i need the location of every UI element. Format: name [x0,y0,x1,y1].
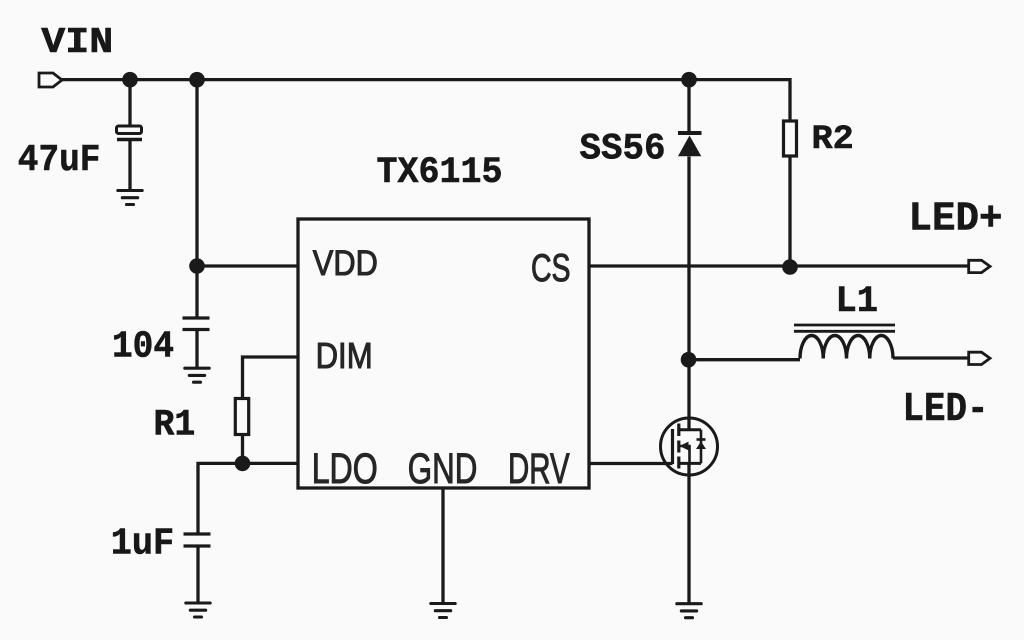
junction dot at VDD branch top [189,72,205,88]
wire DRV pin to MOSFET gate [589,462,673,465]
junction dot CS / R2 [782,259,798,275]
wire LED- inductor to terminal [893,356,969,359]
svg-text:SS56: SS56 [580,129,666,171]
svg-text:GND: GND [408,445,478,493]
wire 47uF branch [128,80,131,126]
svg-text:LDO: LDO [312,445,378,493]
ground for 1uF [186,603,210,617]
junction dot switch node [681,352,697,368]
svg-text:LED-: LED- [903,387,989,433]
wire MOSFET source to ground [687,463,690,602]
junction dot R1 / LDO [235,456,251,472]
resistor R1 [235,399,248,435]
ground for 47uF [118,191,142,205]
diode D1 SS56 cathode bar [678,131,702,135]
MOSFET Q1 channel dashes [677,424,680,469]
wire diode anode down to switch node [687,157,690,360]
wire LDO pin to 1uF [198,463,298,532]
svg-text:DIM: DIM [316,335,373,376]
wire GND pin down [441,488,444,602]
junction dot at VIN / 47uF [122,72,138,88]
IC U1 TX6115 body [298,219,589,488]
MOSFET Q1 source bar [679,462,701,465]
MOSFET Q1 body diode line [700,430,703,464]
svg-text:DRV: DRV [508,445,570,493]
wire DIM pin to R1 [243,357,299,399]
wire R1 bottom to LDO net [241,435,244,464]
MOSFET Q1 drain bar [679,428,701,431]
wire 1uF lower lead [196,548,199,603]
svg-text:R2: R2 [812,121,854,159]
capacitor C3 1uF plates [184,534,211,546]
wire VDD pin stub [197,264,298,267]
diode D1 SS56 triangle [678,136,701,157]
svg-text:CS: CS [531,247,571,290]
inductor L1 winding humps [800,335,893,358]
inductor L1 core lines [794,325,895,331]
svg-text:47uF: 47uF [18,139,101,182]
wire 47uF lower lead [128,141,131,190]
capacitor C1 47uF bottom plate [117,138,142,142]
svg-text:104: 104 [112,326,174,369]
wire top rail VIN to R2 corner [62,80,790,121]
svg-text:VDD: VDD [313,243,378,283]
MOSFET Q1 gate bar [671,429,674,464]
wire CS pin to LED+ terminal [589,264,969,267]
wire R2 bottom to CS net [788,156,791,267]
ground for IC GND pin [431,604,455,618]
terminal LED- [969,352,990,364]
junction dot VDD net [189,258,205,274]
svg-text:LED+: LED+ [909,197,1003,243]
MOSFET Q1 body diode triangle [696,442,706,450]
wire switch node to inductor [689,358,801,361]
svg-text:TX6115: TX6115 [377,152,503,194]
MOSFET Q1 circle [661,418,718,475]
wire VDD branch vertical [195,80,198,317]
MOSFET Q1 body arrow head [680,442,689,451]
terminal VIN [39,73,62,87]
capacitor C1 47uF polarized top plate [117,126,142,134]
ground for 104 [185,368,209,382]
MOSFET Q1 body diode cathode bar [697,438,706,441]
terminal LED+ [969,260,990,272]
wire 104 lower lead [195,331,198,368]
wire switch node down to MOSFET drain [687,360,690,430]
junction dot at diode branch top [681,72,697,88]
ground for MOSFET source [677,604,701,618]
MOSFET Q1 body tap to source [679,446,690,463]
svg-text:L1: L1 [836,281,879,323]
capacitor C2 104 plates [183,318,210,330]
svg-text:R1: R1 [154,404,196,446]
resistor R2 [784,121,797,156]
wire diode branch upper [687,80,690,132]
svg-text:VIN: VIN [41,22,113,63]
svg-text:1uF: 1uF [111,523,174,566]
